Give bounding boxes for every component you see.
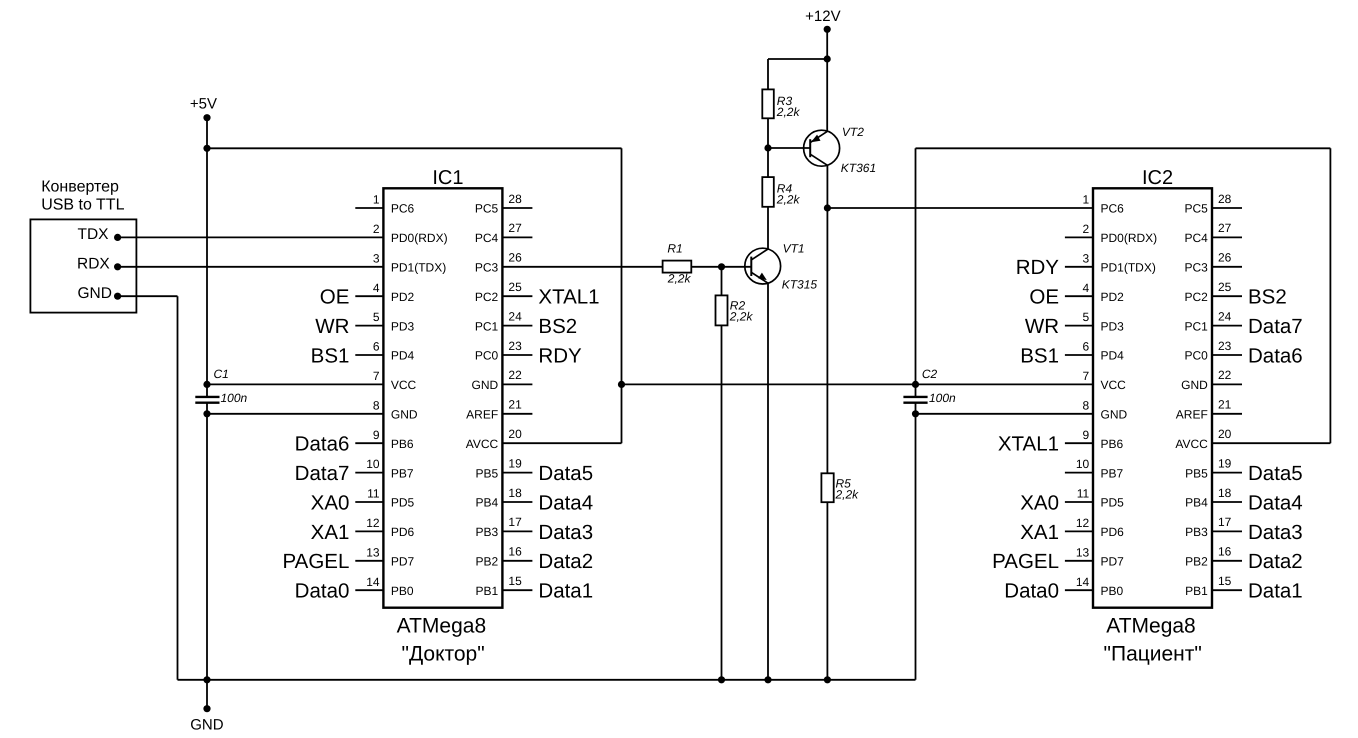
svg-text:GND: GND — [1101, 408, 1128, 422]
junction IC2 VCC node — [912, 381, 919, 388]
node GND of converter — [78, 285, 122, 302]
IC1 pin 1 (PC6) — [355, 193, 414, 216]
junction +5V link at IC1 AVCC vertical — [618, 381, 625, 388]
svg-text:PAGEL: PAGEL — [992, 550, 1059, 573]
svg-text:5: 5 — [1083, 310, 1090, 324]
svg-text:Конвертер: Конвертер — [41, 178, 119, 195]
IC2 pin 10 (PB7) — [1065, 457, 1124, 480]
svg-text:C1: C1 — [214, 367, 229, 381]
svg-text:Data3: Data3 — [1248, 521, 1303, 544]
IC2 pin 4 (PD2) — [1065, 281, 1124, 304]
svg-text:Data4: Data4 — [1248, 491, 1303, 514]
svg-text:PD7: PD7 — [1101, 555, 1125, 569]
svg-text:AVCC: AVCC — [1175, 437, 1208, 451]
svg-text:2,2k: 2,2k — [776, 193, 801, 207]
IC1 pin 21 (AREF) — [466, 398, 532, 422]
IC1 pin 16 (PB2) — [476, 545, 533, 569]
label IC1 part name — [397, 614, 487, 665]
svg-text:AREF: AREF — [1176, 408, 1208, 422]
node Data3 (IC2 pin 17) — [1248, 521, 1303, 544]
svg-text:22: 22 — [1218, 368, 1232, 382]
IC2 pin 15 (PB1) — [1185, 574, 1242, 598]
svg-text:16: 16 — [1218, 545, 1232, 559]
svg-text:Data4: Data4 — [538, 491, 593, 514]
svg-text:PD2: PD2 — [1101, 290, 1125, 304]
wire bottom ground bus — [178, 679, 916, 681]
transistor VT2 KT361 — [804, 125, 877, 175]
IC1 pin 28 (PC5) — [475, 192, 533, 216]
svg-text:ATMega8: ATMega8 — [1106, 614, 1196, 637]
IC2 pin 27 (PC4) — [1184, 221, 1242, 245]
IC2 pin 19 (PB5) — [1185, 456, 1242, 480]
power +5V terminal — [190, 96, 217, 149]
svg-text:PD0(RDX): PD0(RDX) — [391, 231, 448, 245]
svg-text:PB3: PB3 — [1185, 525, 1208, 539]
IC2 pin 3 (PD1(TDX)) — [1065, 251, 1156, 274]
svg-text:Data0: Data0 — [1004, 580, 1059, 603]
svg-text:12: 12 — [1076, 516, 1090, 530]
IC2 pin 8 (GND) — [1083, 398, 1128, 421]
svg-text:GND: GND — [78, 285, 112, 302]
junction R1-R2-base node — [718, 263, 725, 270]
svg-text:15: 15 — [1218, 574, 1232, 588]
svg-text:PB6: PB6 — [1101, 437, 1124, 451]
IC1 pin 4 (PD2) — [355, 281, 414, 304]
IC1 pin 14 (PB0) — [355, 575, 414, 598]
svg-text:20: 20 — [1218, 427, 1232, 441]
junction GND rail on bottom bus — [203, 676, 210, 683]
junction R5 at bus — [824, 676, 831, 683]
svg-text:17: 17 — [1218, 515, 1232, 529]
svg-text:PC5: PC5 — [475, 202, 499, 216]
wire IC1 pin8 GND lead — [207, 413, 383, 415]
svg-text:2,2k: 2,2k — [776, 105, 801, 119]
IC2 pin 20 (AVCC) — [1175, 427, 1231, 451]
svg-text:Data1: Data1 — [1248, 580, 1303, 603]
IC2 pin 24 (PC1) — [1184, 309, 1242, 333]
svg-text:25: 25 — [508, 280, 522, 294]
svg-text:Data6: Data6 — [295, 433, 350, 456]
svg-text:GND: GND — [1181, 378, 1208, 392]
svg-text:C2: C2 — [922, 367, 938, 381]
wire RDX to IC1 pin3 — [118, 266, 384, 268]
wire R5 bottom to ground bus — [826, 502, 828, 680]
wire node down to R2 — [721, 267, 723, 296]
node Data6 (IC1 pin 9) — [295, 433, 350, 456]
svg-text:PD4: PD4 — [1101, 349, 1125, 363]
IC1 pin 5 (PD3) — [355, 310, 414, 333]
svg-text:Data7: Data7 — [1248, 315, 1303, 338]
svg-text:1: 1 — [373, 193, 380, 207]
node RDX — [77, 256, 121, 273]
svg-text:PC3: PC3 — [475, 261, 499, 275]
resistor R5 — [821, 473, 859, 502]
node Data3 (IC1 pin 17) — [538, 521, 593, 544]
svg-text:PB5: PB5 — [1185, 466, 1208, 480]
node Data2 (IC1 pin 16) — [538, 550, 593, 573]
IC2 pin 12 (PD6) — [1065, 516, 1124, 539]
svg-text:VT1: VT1 — [783, 242, 805, 256]
svg-text:11: 11 — [367, 487, 380, 501]
svg-text:100n: 100n — [929, 391, 956, 405]
power +12V terminal — [805, 8, 840, 59]
node WR (IC2 pin 5) — [1025, 315, 1059, 338]
node XA0 (IC1 pin 11) — [311, 491, 350, 514]
transistor VT1 KT315 — [745, 242, 818, 292]
svg-text:PC6: PC6 — [391, 202, 415, 216]
svg-text:PC0: PC0 — [1184, 349, 1208, 363]
svg-text:BS2: BS2 — [1248, 286, 1287, 309]
IC1 pin 3 (PD1(TDX)) — [373, 251, 446, 274]
svg-text:21: 21 — [508, 398, 522, 412]
svg-text:PC4: PC4 — [1184, 231, 1208, 245]
wire +5V top rail to IC2 AVCC side — [916, 147, 1331, 149]
IC1 pin 8 (GND) — [373, 398, 418, 421]
svg-text:5: 5 — [373, 310, 380, 324]
svg-text:28: 28 — [508, 192, 522, 206]
IC1 pin 7 (VCC) — [373, 369, 417, 392]
wire VT2 collector down — [826, 165, 828, 208]
svg-text:+5V: +5V — [190, 96, 217, 113]
IC1 pin 12 (PD6) — [355, 516, 414, 539]
svg-text:PC3: PC3 — [1184, 261, 1208, 275]
node BS1 (IC2 pin 6) — [1020, 344, 1059, 367]
svg-text:28: 28 — [1218, 192, 1232, 206]
IC1 pin 19 (PB5) — [476, 456, 533, 480]
svg-text:14: 14 — [1076, 575, 1090, 589]
ground GND terminal — [190, 705, 224, 733]
node Data1 (IC1 pin 15) — [538, 580, 593, 603]
op-amp-style IC body IC2 — [1093, 167, 1212, 608]
svg-text:24: 24 — [508, 309, 522, 323]
wire R1 to VT1 base — [691, 266, 751, 268]
wire IC1 pin7 VCC lead — [207, 383, 383, 385]
IC1 pin 11 (PD5) — [355, 487, 414, 510]
svg-text:GND: GND — [190, 716, 224, 733]
wire +5V top rail to IC1 AVCC side — [207, 147, 622, 149]
svg-text:PB2: PB2 — [1185, 555, 1208, 569]
svg-text:KT315: KT315 — [782, 278, 818, 292]
svg-text:PD5: PD5 — [391, 496, 415, 510]
node BS2 (IC1 pin 24) — [538, 315, 577, 338]
IC1 pin 23 (PC0) — [475, 339, 533, 363]
svg-text:Data1: Data1 — [538, 580, 593, 603]
junction VT2 collector node — [824, 204, 831, 211]
IC1 pin 22 (GND) — [472, 368, 533, 392]
svg-text:16: 16 — [508, 545, 522, 559]
node Data2 (IC2 pin 16) — [1248, 550, 1303, 573]
svg-text:24: 24 — [1218, 309, 1232, 323]
node TDX — [78, 226, 122, 243]
svg-text:14: 14 — [366, 575, 380, 589]
svg-text:RDX: RDX — [77, 256, 110, 273]
node XA1 (IC1 pin 12) — [311, 521, 350, 544]
IC1 pin 15 (PB1) — [476, 574, 533, 598]
svg-text:8: 8 — [1083, 398, 1090, 412]
svg-text:9: 9 — [1083, 428, 1090, 442]
node Data4 (IC1 pin 18) — [538, 491, 593, 514]
svg-text:PC0: PC0 — [475, 349, 499, 363]
wire VT2 base wire — [768, 147, 810, 149]
svg-text:15: 15 — [508, 574, 522, 588]
svg-text:17: 17 — [508, 515, 522, 529]
svg-text:AVCC: AVCC — [466, 437, 499, 451]
svg-text:PC1: PC1 — [1184, 319, 1208, 333]
svg-text:XA1: XA1 — [1020, 521, 1059, 544]
wire TDX to IC1 pin2 — [118, 236, 384, 238]
svg-text:Data0: Data0 — [295, 580, 350, 603]
wire converter GND right segment — [118, 295, 178, 297]
svg-text:RDY: RDY — [1016, 256, 1060, 279]
svg-text:27: 27 — [1218, 221, 1232, 235]
svg-text:IC2: IC2 — [1142, 167, 1173, 189]
wire IC2 pin8 GND lead — [916, 413, 1094, 415]
svg-text:PD1(TDX): PD1(TDX) — [391, 261, 446, 275]
svg-text:11: 11 — [1077, 487, 1090, 501]
svg-text:PB1: PB1 — [476, 584, 499, 598]
node XA0 (IC2 pin 11) — [1020, 491, 1059, 514]
svg-text:1: 1 — [1083, 193, 1090, 207]
IC2 pin 23 (PC0) — [1184, 339, 1242, 363]
wire converter GND vertical down — [177, 296, 179, 680]
node OE (IC2 pin 4) — [1029, 286, 1059, 309]
IC2 pin 6 (PD4) — [1065, 340, 1124, 363]
svg-text:PC2: PC2 — [1184, 290, 1208, 304]
IC2 pin 18 (PB4) — [1185, 486, 1242, 510]
svg-text:VCC: VCC — [1101, 378, 1127, 392]
svg-text:4: 4 — [1083, 281, 1090, 295]
svg-text:PC2: PC2 — [475, 290, 499, 304]
svg-text:10: 10 — [1076, 457, 1090, 471]
svg-text:BS1: BS1 — [1020, 344, 1059, 367]
svg-text:PD2: PD2 — [391, 290, 415, 304]
wire IC1 pin26 PC3 to R1 — [502, 266, 662, 268]
svg-text:Data2: Data2 — [1248, 550, 1303, 573]
svg-text:7: 7 — [373, 369, 380, 383]
svg-text:18: 18 — [508, 486, 522, 500]
svg-text:VT2: VT2 — [842, 125, 864, 139]
svg-text:PB3: PB3 — [476, 525, 499, 539]
svg-text:ATMega8: ATMega8 — [397, 614, 487, 637]
svg-text:WR: WR — [1025, 315, 1059, 338]
svg-text:Data6: Data6 — [1248, 344, 1303, 367]
svg-text:XTAL1: XTAL1 — [998, 433, 1059, 456]
node Data5 (IC1 pin 19) — [538, 462, 593, 485]
capacitor C1 — [195, 367, 247, 405]
junction +12V node — [824, 55, 831, 62]
wire C2 bottom down to ground bus — [915, 403, 917, 680]
wire VT2 collector to IC2 pin1 — [827, 207, 1093, 209]
converter USB-to-TTL box — [30, 178, 136, 312]
svg-text:PD6: PD6 — [391, 525, 415, 539]
node XA1 (IC2 pin 12) — [1020, 521, 1059, 544]
node PAGEL (IC2 pin 13) — [992, 550, 1059, 573]
svg-text:20: 20 — [508, 427, 522, 441]
svg-text:PD6: PD6 — [1101, 525, 1125, 539]
resistor R4 — [762, 177, 800, 207]
IC1 pin 6 (PD4) — [355, 340, 414, 363]
svg-text:PC6: PC6 — [1101, 202, 1125, 216]
svg-text:OE: OE — [320, 286, 350, 309]
op-amp-style IC body IC1 — [383, 167, 502, 608]
svg-text:3: 3 — [373, 251, 380, 265]
node WR (IC1 pin 5) — [315, 315, 349, 338]
IC1 pin 13 (PD7) — [355, 545, 414, 568]
svg-text:PC5: PC5 — [1184, 202, 1208, 216]
svg-text:21: 21 — [1218, 398, 1232, 412]
IC2 pin 2 (PD0(RDX)) — [1065, 222, 1157, 245]
node Data1 (IC2 pin 15) — [1248, 580, 1303, 603]
node Data0 (IC2 pin 14) — [1004, 580, 1059, 603]
resistor R3 — [762, 89, 800, 119]
svg-text:PD1(TDX): PD1(TDX) — [1101, 261, 1156, 275]
IC1 pin 9 (PB6) — [355, 428, 414, 451]
svg-text:PB5: PB5 — [476, 466, 499, 480]
IC2 pin 25 (PC2) — [1184, 280, 1242, 304]
svg-text:6: 6 — [373, 340, 380, 354]
IC2 pin 14 (PB0) — [1065, 575, 1124, 598]
svg-text:XA1: XA1 — [311, 521, 350, 544]
svg-text:8: 8 — [373, 398, 380, 412]
node RDY (IC2 pin 3) — [1016, 256, 1060, 279]
svg-text:PB2: PB2 — [476, 555, 499, 569]
svg-text:100n: 100n — [221, 391, 248, 405]
node XTAL1 (IC1 pin 25) — [538, 286, 599, 309]
IC1 pin 26 (PC3) — [475, 251, 522, 275]
IC1 pin 10 (PB7) — [355, 457, 414, 480]
wire VT1 emitter to ground bus — [767, 283, 769, 680]
node Data6 (IC2 pin 23) — [1248, 344, 1303, 367]
svg-text:XA0: XA0 — [1020, 491, 1059, 514]
IC2 pin 28 (PC5) — [1184, 192, 1242, 216]
wire node B to R4 top — [767, 148, 769, 177]
junction IC2 GND node — [912, 410, 919, 417]
svg-text:2,2k: 2,2k — [729, 309, 754, 323]
svg-text:RDY: RDY — [538, 344, 582, 367]
svg-text:26: 26 — [1218, 251, 1232, 265]
wire +5V rail down to C1 — [206, 148, 208, 397]
svg-text:4: 4 — [373, 281, 380, 295]
node BS1 (IC1 pin 6) — [311, 344, 350, 367]
svg-text:3: 3 — [1083, 251, 1090, 265]
svg-text:26: 26 — [508, 251, 522, 265]
wire collector node down to R5 — [826, 208, 828, 473]
svg-text:WR: WR — [315, 315, 349, 338]
svg-text:2: 2 — [373, 222, 380, 236]
node Data7 (IC1 pin 10) — [295, 462, 350, 485]
resistor R1 — [663, 241, 692, 285]
IC2 pin 22 (GND) — [1181, 368, 1242, 392]
svg-text:23: 23 — [508, 339, 522, 353]
IC1 pin 2 (PD0(RDX)) — [373, 222, 448, 245]
svg-text:PD4: PD4 — [391, 349, 415, 363]
svg-text:Data5: Data5 — [1248, 462, 1303, 485]
IC2 pin 13 (PD7) — [1065, 545, 1124, 568]
IC2 pin 9 (PB6) — [1065, 428, 1124, 451]
wire IC2 AVCC vertical — [1329, 148, 1331, 443]
svg-text:6: 6 — [1083, 340, 1090, 354]
junction IC1 GND node — [203, 410, 210, 417]
svg-text:PB7: PB7 — [391, 466, 414, 480]
svg-text:GND: GND — [472, 378, 499, 392]
svg-text:PB7: PB7 — [1101, 466, 1124, 480]
svg-text:"Доктор": "Доктор" — [401, 642, 484, 665]
junction +5V rail — [203, 145, 210, 152]
junction node between R3 and R4 — [764, 144, 771, 151]
IC2 pin 11 (PD5) — [1065, 487, 1124, 510]
svg-text:23: 23 — [1218, 339, 1232, 353]
wire IC1 pin20 AVCC lead — [502, 442, 621, 444]
IC2 pin 5 (PD3) — [1065, 310, 1124, 333]
wire IC2 pin7 VCC lead — [916, 383, 1094, 385]
wire +12V to R3 top — [768, 59, 827, 89]
svg-text:PD3: PD3 — [1101, 319, 1125, 333]
svg-text:AREF: AREF — [466, 408, 498, 422]
node PAGEL (IC1 pin 13) — [283, 550, 350, 573]
node RDY (IC1 pin 23) — [538, 344, 582, 367]
wire R3 bottom to node B — [767, 118, 769, 148]
svg-text:PAGEL: PAGEL — [283, 550, 350, 573]
svg-text:+12V: +12V — [805, 8, 840, 25]
IC1 pin 17 (PB3) — [476, 515, 533, 539]
svg-text:2,2k: 2,2k — [667, 272, 692, 286]
svg-text:Data5: Data5 — [538, 462, 593, 485]
IC2 pin 26 (PC3) — [1184, 251, 1242, 275]
svg-text:PB1: PB1 — [1185, 584, 1208, 598]
svg-text:PD3: PD3 — [391, 319, 415, 333]
node Data4 (IC2 pin 18) — [1248, 491, 1303, 514]
svg-text:2: 2 — [1083, 222, 1090, 236]
svg-text:PD0(RDX): PD0(RDX) — [1101, 231, 1158, 245]
svg-text:VCC: VCC — [391, 378, 417, 392]
svg-text:Data3: Data3 — [538, 521, 593, 544]
svg-text:PC1: PC1 — [475, 319, 499, 333]
svg-text:12: 12 — [366, 516, 380, 530]
node Data5 (IC2 pin 19) — [1248, 462, 1303, 485]
svg-text:PD5: PD5 — [1101, 496, 1125, 510]
svg-text:7: 7 — [1083, 369, 1090, 383]
svg-text:2,2k: 2,2k — [835, 488, 860, 502]
IC1 pin 24 (PC1) — [475, 309, 533, 333]
resistor R2 — [716, 295, 754, 325]
IC2 pin 7 (VCC) — [1083, 369, 1127, 392]
svg-text:Data7: Data7 — [295, 462, 350, 485]
junction IC1 VCC node — [203, 381, 210, 388]
svg-text:BS2: BS2 — [538, 315, 577, 338]
junction R2 at bus — [718, 676, 725, 683]
node XTAL1 (IC2 pin 9) — [998, 433, 1059, 456]
wire GND rail below C1 down to GND terminal — [206, 403, 208, 709]
IC2 pin 17 (PB3) — [1185, 515, 1242, 539]
IC2 pin 1 (PC6) — [1083, 193, 1125, 216]
svg-text:IC1: IC1 — [432, 167, 463, 189]
svg-text:PB4: PB4 — [476, 496, 499, 510]
svg-text:"Пациент": "Пациент" — [1104, 642, 1202, 665]
svg-text:XTAL1: XTAL1 — [538, 286, 599, 309]
svg-text:PB4: PB4 — [1185, 496, 1208, 510]
IC2 pin 16 (PB2) — [1185, 545, 1242, 569]
wire VT2 emitter to +12V — [826, 59, 828, 131]
svg-text:BS1: BS1 — [311, 344, 350, 367]
wire +5V link IC1 to C2 — [622, 383, 916, 385]
label IC2 part name — [1104, 614, 1202, 665]
capacitor C2 — [903, 367, 956, 405]
svg-text:25: 25 — [1218, 280, 1232, 294]
svg-text:Data2: Data2 — [538, 550, 593, 573]
svg-text:19: 19 — [1218, 456, 1232, 470]
node OE (IC1 pin 4) — [320, 286, 350, 309]
node Data0 (IC1 pin 14) — [295, 580, 350, 603]
